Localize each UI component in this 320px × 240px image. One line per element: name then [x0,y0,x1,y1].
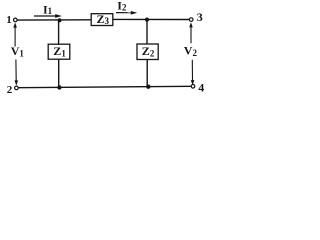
label I2 [117,0,127,13]
svg-text:I2: I2 [117,0,127,13]
svg-text:1: 1 [6,14,12,26]
wire top-right segment (Z3 to node 3) [113,18,190,20]
node 4 terminal [191,85,195,89]
label I1 [43,2,53,16]
impedance Z1 [48,44,70,59]
voltage arrow V2 lower [191,60,195,86]
node 2 terminal [15,86,19,90]
node 1 label [6,14,12,26]
voltage arrow V2 upper [189,22,193,43]
node 1 terminal [14,18,18,22]
wire Z2 top lead [146,20,148,45]
voltage arrow V1 lower [15,60,19,86]
svg-text:3: 3 [197,10,203,24]
node 3 label [197,10,203,24]
junction dot top-right [145,18,149,22]
wire bottom segment (node 2 to node 4) [18,86,191,87]
wire top-left segment (node 1 to Z3) [17,19,91,21]
current arrow I2 [116,11,137,15]
wire Z1 top lead [58,20,60,44]
wire Z2 bottom lead [146,59,148,86]
current arrow I1 [34,14,62,18]
junction dot top-left [57,18,61,22]
node 4 label [198,80,204,94]
impedance Z3 [91,12,113,26]
svg-text:4: 4 [198,80,204,94]
label V1 [11,44,25,58]
svg-text:2: 2 [7,84,13,96]
impedance Z2 [137,44,158,60]
node 3 terminal [189,18,193,22]
voltage arrow V1 upper [13,22,17,46]
junction dot bottom-left [57,85,61,89]
junction dot bottom-right [146,85,150,89]
label V2 [184,44,198,58]
wire Z1 bottom lead [58,59,60,87]
node 2 label [7,84,13,96]
